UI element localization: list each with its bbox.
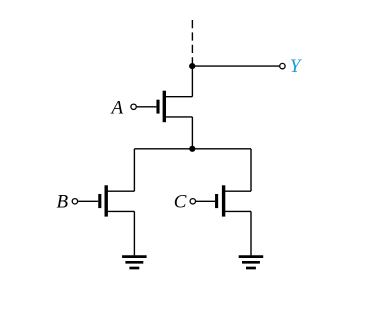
wire: dashed stub to pull-up network [191,20,193,54]
wire: rail left end down to Q_B drain [133,149,135,191]
terminal circle B [72,199,77,204]
transistor Q_A channel bar [163,91,166,123]
junction dot at node N1 [189,146,195,152]
wire: Q_B source down to ground [133,211,135,255]
wire: output wire from junction to terminal Y [192,65,279,67]
ground symbol under Q_B [122,257,147,268]
transistor Q_C source lead [224,210,251,212]
wire: gate lead of Q_A from terminal A [137,106,157,108]
terminal circle A [131,104,136,109]
svg-text:A: A [110,98,124,119]
junction dot at node Y [189,63,195,69]
transistor Q_A source lead [164,116,192,118]
terminal circle C [190,199,195,204]
wire: gate lead of Q_C from terminal C [196,200,215,202]
svg-text:B: B [57,192,69,213]
terminal circle Y [280,63,285,68]
wire: vertical from node Y junction down to Q_A drain [191,66,193,97]
transistor Q_A gate bar [156,100,159,114]
transistor Q_A drain lead [164,96,192,98]
wire: rail right end down to Q_C drain [250,149,252,191]
transistor Q_C drain lead [224,190,251,192]
wire: Q_A source down to internal node N1 [191,117,193,149]
transistor Q_C gate bar [215,194,218,208]
transistor Q_B channel bar [104,185,107,216]
transistor Q_C channel bar [222,185,225,216]
wire: node N1 horizontal rail [134,148,251,150]
wire: Q_C source down to ground [250,211,252,255]
svg-text:C: C [174,192,187,213]
ground symbol under Q_C [239,257,264,268]
transistor Q_B source lead [106,210,134,212]
svg-text:Y: Y [290,56,303,77]
wire: gate lead of Q_B from terminal B [78,200,98,202]
wire: solid segment from dashed stub to node Y junction [191,57,193,66]
transistor Q_B drain lead [106,190,134,192]
transistor Q_B gate bar [98,194,101,208]
